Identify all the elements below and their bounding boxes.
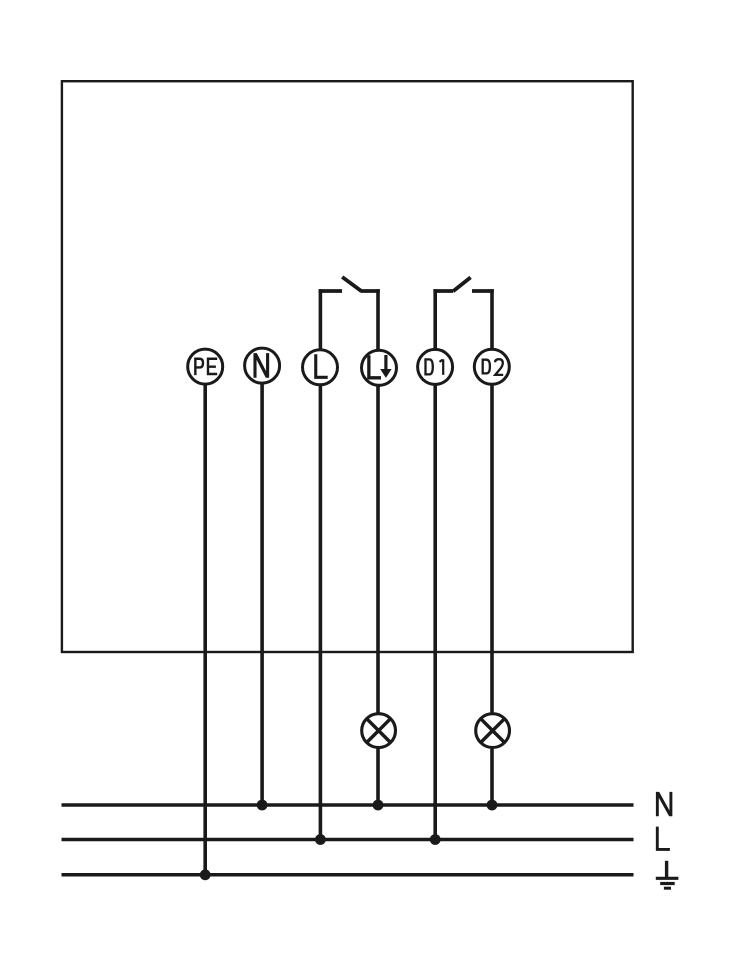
wire D1 terminal to L bus — [433, 385, 437, 840]
wire D1 terminal to switch S2 — [433, 289, 437, 349]
terminal L-arrow (switched live output) — [362, 350, 397, 385]
ground symbol (earth) — [656, 861, 679, 888]
junction PE terminal / PE bus — [200, 869, 211, 880]
wire lamp E1 to N bus — [376, 748, 380, 806]
wire switch S2 to D2 terminal — [490, 289, 494, 349]
switch S2 (between D1 and D2) — [433, 277, 493, 291]
junction L terminal / L bus — [315, 834, 326, 845]
terminal D1 — [418, 349, 453, 384]
wire L terminal to L bus — [319, 385, 323, 840]
label N bus — [656, 792, 672, 816]
L bus line — [62, 838, 634, 842]
junction lamp E2 / N bus — [487, 800, 498, 811]
wire D2 terminal to lamp E2 — [490, 385, 494, 715]
switch S1 (between L and L-arrow) — [319, 277, 380, 291]
wire switch S1 to L-arrow terminal — [376, 289, 380, 349]
terminal PE — [188, 349, 223, 384]
wire L-arrow terminal to lamp E1 — [376, 386, 380, 715]
terminal N — [245, 348, 280, 383]
junction lamp E1 / N bus — [373, 800, 384, 811]
terminal L — [303, 350, 338, 385]
label L bus — [657, 827, 670, 850]
wire lamp E2 to N bus — [490, 748, 494, 806]
junction N terminal / N bus — [257, 800, 268, 811]
junction D1 / L bus — [430, 834, 441, 845]
lamp E2 — [476, 714, 510, 748]
N bus line — [62, 803, 634, 807]
terminal D2 — [474, 349, 509, 384]
wire PE terminal to PE bus — [203, 385, 207, 875]
device outline — [62, 81, 633, 652]
wire N terminal to N bus — [260, 384, 264, 806]
lamp E1 — [362, 714, 396, 748]
wire L terminal to switch S1 — [319, 289, 323, 348]
PE bus line — [62, 873, 634, 877]
